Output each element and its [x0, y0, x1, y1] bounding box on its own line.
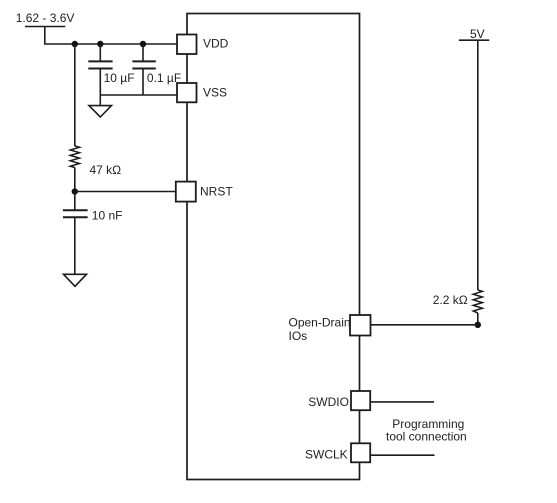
wire: R1 to reset node	[74, 168, 76, 192]
MCU body U1	[187, 14, 360, 480]
svg-text:SWDIO: SWDIO	[308, 395, 349, 409]
supply rail 5V	[459, 27, 489, 41]
wire: C2 to VSS net	[142, 69, 144, 95]
wire: C3 to ground	[74, 218, 76, 274]
resistor R1 47 kOhm	[70, 146, 121, 177]
svg-text:SWCLK: SWCLK	[305, 447, 348, 461]
node: junction top net / C1	[97, 41, 103, 47]
wire: reset node down to C3	[74, 192, 76, 210]
svg-text:IOs: IOs	[289, 329, 308, 343]
pin VDD	[177, 35, 229, 55]
wire: SWDIO stub	[370, 401, 434, 403]
svg-text:47 kΩ: 47 kΩ	[90, 163, 122, 177]
pin SWDIO	[308, 391, 370, 410]
wire: R2 to open-drain net	[477, 313, 479, 325]
wire: VSS net horizontal	[100, 94, 177, 96]
capacitor C2 0.1 uF	[132, 61, 181, 85]
wire: rail drop	[44, 27, 46, 45]
capacitor C1 10 uF	[88, 61, 134, 85]
pin NRST	[176, 182, 234, 202]
svg-text:VSS: VSS	[203, 86, 227, 100]
svg-text:Open-Drain: Open-Drain	[289, 316, 351, 330]
node: junction top net / C2	[140, 41, 146, 47]
pin SWCLK	[305, 443, 370, 462]
wire: open-drain net horizontal	[371, 324, 478, 326]
wire: 5V down to R2	[477, 40, 479, 290]
svg-text:10 µF: 10 µF	[104, 71, 135, 85]
pin Open-Drain IOs	[289, 315, 371, 343]
label: programming tool connection	[386, 417, 467, 443]
svg-text:1.62 - 3.6V: 1.62 - 3.6V	[16, 11, 75, 25]
svg-text:0.1 µF: 0.1 µF	[147, 71, 181, 85]
wire: C1 to VSS net	[99, 69, 101, 95]
svg-text:10 nF: 10 nF	[92, 208, 123, 222]
capacitor C3 10 nF	[63, 208, 123, 222]
wire: branch down to R1	[74, 44, 76, 146]
supply rail 1.62-3.6V	[16, 11, 75, 27]
svg-text:tool connection: tool connection	[386, 430, 467, 444]
wire: reset net to NRST pin	[75, 191, 176, 193]
svg-text:5V: 5V	[470, 27, 485, 41]
node: junction top net / 47k branch	[72, 41, 78, 47]
wire: top net down to C2	[142, 44, 144, 61]
node: reset net junction	[72, 188, 78, 194]
ground symbol (reset cap)	[64, 274, 87, 286]
svg-text:VDD: VDD	[203, 37, 229, 51]
svg-text:NRST: NRST	[200, 185, 233, 199]
wire: SWCLK stub	[370, 454, 434, 456]
pin VSS	[177, 83, 227, 102]
ground symbol (supply caps)	[89, 106, 112, 117]
resistor R2 2.2 kOhm	[433, 290, 483, 313]
wire: top supply net horizontal	[44, 43, 178, 45]
svg-text:2.2 kΩ: 2.2 kΩ	[433, 293, 468, 307]
wire: VSS net stub to ground	[99, 95, 101, 106]
wire: top net down to C1	[99, 44, 101, 61]
node: open-drain junction	[475, 322, 481, 328]
